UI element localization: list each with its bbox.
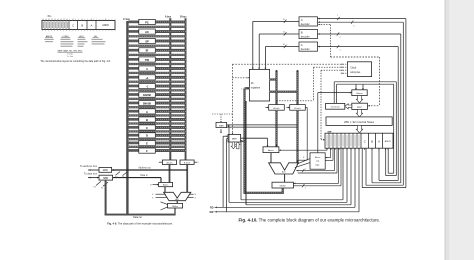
register SP row : C-bus stub, box, A/B bus bar (128, 38, 186, 43)
microinstruction narrow field vertical labels (AMUX COND ALU SH MBR MAR RD WR ENC) (43, 22, 68, 28)
svg-text:4: 4 (340, 37, 341, 39)
A decoder (299, 42, 318, 51)
wire microseq to Mmux (318, 92, 352, 153)
register C row : C-bus stub, box, A/B bus bar (128, 125, 186, 130)
table caption (40, 60, 111, 63)
svg-text:ALU: ALU (175, 198, 179, 201)
C decoder (299, 17, 318, 26)
svg-text:B: B (301, 31, 303, 35)
legend column COND (61, 36, 74, 47)
svg-text:B: B (81, 23, 83, 27)
wire A latch to AMUX (169, 165, 171, 183)
svg-text:TIR: TIR (145, 58, 149, 62)
A latch (block diagram) (265, 105, 284, 111)
svg-text:2: 2 (305, 187, 306, 189)
wire inter-register bus bar (127, 114, 186, 116)
shifter (left figure) (168, 203, 183, 208)
svg-text:B bus: B bus (180, 16, 187, 18)
wire ENC-field line to registers (245, 101, 351, 205)
register AMASK row : C-bus stub, box, A/B bus bar (128, 92, 186, 97)
wire B latch down to ALU right input (186, 165, 188, 193)
svg-text:Increment: Increment (331, 106, 340, 109)
svg-text:registers: registers (251, 86, 261, 89)
wire inter-register bus bar (127, 63, 186, 65)
wire COND lines from MIR into microseq (2) (325, 148, 333, 160)
wire MAR-field line to MAR box (229, 125, 347, 202)
svg-text:Amux: Amux (268, 149, 274, 152)
svg-text:WR: WR (210, 211, 214, 214)
svg-text:16: 16 (283, 44, 285, 46)
label Data out (133, 216, 142, 219)
A latch L1 (159, 160, 177, 165)
scanner grey strip right edge (445, 0, 474, 260)
wire dashed clock to MIR (321, 70, 341, 140)
svg-text:C: C (146, 126, 148, 130)
svg-text:The microinstruction layout fo: The microinstruction layout for controll… (40, 60, 111, 63)
AMUX (block diagram) (263, 147, 279, 153)
wire C return branch to MBR (241, 140, 245, 142)
wire inter-register bus bar (127, 45, 186, 47)
svg-text:Mmux: Mmux (357, 93, 364, 95)
svg-text:A bus: A bus (165, 15, 172, 18)
svg-text:16: 16 (283, 31, 285, 33)
svg-text:SMASK: SMASK (143, 102, 152, 105)
label To data bus + arrow (84, 172, 99, 179)
svg-text:decoder: decoder (301, 48, 310, 51)
wire MAR to address bus stub (220, 129, 222, 133)
svg-text:decoder: decoder (301, 35, 310, 38)
wire ALU to shifter (block diagram) (284, 174, 286, 182)
svg-text:A: A (146, 110, 148, 114)
svg-text:MAR: MAR (219, 124, 224, 127)
svg-text:A latch: A latch (166, 161, 172, 164)
wire inter-register bus bar (127, 138, 186, 140)
Mmux box (352, 90, 367, 96)
svg-text:AC: AC (145, 30, 149, 34)
register PC row : C-bus stub, box, A/B bus bar (128, 19, 186, 24)
wire AMUX to ALU (270, 153, 272, 163)
svg-text:A: A (378, 139, 380, 143)
wire ENC outer loop (362, 19, 406, 188)
svg-text:MBR: MBR (103, 178, 108, 180)
caption figure 4-9 (107, 221, 173, 225)
svg-text:E: E (146, 141, 148, 145)
wire inter-register bus bar (127, 26, 186, 28)
wire inter-register bus bar (127, 130, 186, 132)
wire MBR to AMUX (241, 138, 269, 147)
svg-text:1 = Yes: 1 = Yes (67, 56, 73, 58)
MBR (block diagram) (228, 134, 241, 142)
register IR row : C-bus stub, box, A/B bus bar (128, 48, 186, 53)
svg-text:L: L (198, 162, 199, 164)
wire dashed clock long line to MBR/MAR/registers (212, 64, 341, 134)
wire address out : B latch to MAR (112, 169, 188, 171)
ALU status outputs N Z (187, 194, 197, 199)
wire B latch right branch (297, 107, 308, 160)
microsequencing logic box (310, 153, 325, 169)
Rd Wr control arrows near MBR (94, 181, 108, 189)
wire inter-register bus bar (127, 146, 186, 148)
MAR (to address bus) (99, 167, 112, 172)
wire B field into B decoder (4) (318, 32, 401, 38)
svg-text:IR: IR (146, 49, 149, 53)
shifter control ticks (161, 202, 168, 210)
16 registers box (249, 69, 269, 101)
control store 256x32 (326, 117, 392, 126)
svg-text:B: B (146, 118, 148, 122)
svg-text:B latch: B latch (184, 161, 190, 164)
wire A field into A decoder (4) (318, 45, 399, 51)
svg-text:16: 16 (283, 19, 285, 21)
microinstruction format bit-width numbers (43, 19, 106, 21)
wire inter-register bus bar (127, 81, 186, 83)
svg-text:RD: RD (210, 207, 214, 210)
microinstruction format field dividers (43, 19, 115, 32)
AMUX U1 (159, 183, 173, 187)
bus registers to A latch (270, 70, 278, 105)
svg-text:subcycles: subcycles (350, 72, 361, 74)
wire shifter control from MIR (2) (293, 148, 341, 189)
wire B latch to MAR (double) (227, 125, 298, 127)
wire dashed clock line above box to MPC (331, 57, 380, 107)
register A row : C-bus stub, box, A/B bus bar (128, 109, 186, 114)
wire clock output stubs (4 dashed) (341, 63, 348, 74)
svg-text:B latch: B latch (294, 107, 300, 110)
wire inter-register bus bar (127, 89, 186, 91)
svg-text:ADDR: ADDR (385, 140, 391, 143)
wire MBR-field line to MBR box (241, 140, 343, 200)
svg-text:Fig. 4-9. The data path of the: Fig. 4-9. The data path of the example m… (107, 221, 173, 225)
MIR label (328, 131, 332, 133)
wire dashed clock from C decoder corner (318, 24, 330, 57)
wire decoder 16-line output to registers (252, 19, 299, 70)
register D row : C-bus stub, box, A/B bus bar (128, 133, 186, 138)
wire inter-register bus bar (127, 122, 186, 124)
register B row : C-bus stub, box, A/B bus bar (128, 117, 186, 122)
svg-text:decoder: decoder (301, 23, 310, 26)
bus ADDR field to Mmux (double) (386, 82, 397, 176)
register F row : C-bus stub, box, A/B bus bar (128, 148, 186, 153)
label Address out (138, 167, 151, 170)
clock subcycles box (347, 62, 371, 77)
legend column ALU (78, 35, 88, 47)
microinstruction wide field labels C B A ADDR (72, 23, 109, 27)
svg-text:SP: SP (145, 39, 149, 43)
hollow arrow Mmux to MPC (356, 96, 362, 103)
svg-text:MPC: MPC (357, 107, 362, 109)
legend column SH (92, 36, 106, 45)
label WR (210, 211, 217, 214)
wire inter-register bus bar (127, 35, 186, 37)
ALU trapezoid (block diagram) (269, 163, 299, 174)
wire A field loop (379, 47, 398, 181)
bus B latch to ALU (296, 110, 298, 163)
svg-text:A latch: A latch (273, 107, 279, 110)
ALU trapezoid (left figure) (164, 192, 191, 201)
hollow arrow control store to MIR (356, 125, 362, 133)
svg-text:MBR: MBR (232, 139, 237, 141)
register TIR row : C-bus stub, box, A/B bus bar (128, 57, 186, 62)
svg-text:Rd: Rd (94, 187, 96, 189)
wire inter-register bus bar (127, 106, 186, 108)
svg-text:4: 4 (340, 49, 341, 51)
svg-text:256 × 32 Control Store: 256 × 32 Control Store (344, 120, 375, 124)
MPC box (352, 103, 368, 109)
svg-text:1: 1 (337, 15, 338, 17)
wire dashed clock to latches (277, 67, 341, 104)
svg-text:C: C (72, 23, 74, 27)
svg-text:ADDR: ADDR (102, 24, 109, 27)
svg-text:To data bus: To data bus (84, 172, 98, 176)
svg-text:Micro-: Micro- (315, 157, 321, 159)
register +1 row : C-bus stub, box, A/B bus bar (128, 75, 186, 80)
svg-text:Clock: Clock (350, 67, 357, 70)
wire ALU N Z to microsequencing logic (295, 157, 310, 168)
wire AMUX to ALU (164, 187, 166, 193)
wire data in : MBR to AMUX (113, 178, 161, 183)
wire WR line (215, 139, 360, 212)
svg-text:D: D (146, 134, 148, 138)
svg-text:C: C (364, 139, 366, 143)
A bus label (165, 15, 172, 18)
bus Mmux top feedback (double) (334, 82, 396, 104)
svg-text:Fig. 4-10. The complete block: Fig. 4-10. The complete block diagram of… (239, 217, 381, 222)
microinstruction format table label Bits (48, 15, 53, 18)
svg-text:Rd: Rd (115, 176, 117, 178)
label RD (210, 206, 217, 209)
register E row : C-bus stub, box, A/B bus bar (128, 140, 186, 145)
increment box (326, 103, 345, 109)
wire ALU control lines from MIR (2) (296, 148, 337, 173)
wire RD line (215, 135, 356, 207)
B decoder (299, 29, 318, 38)
ALU function inputs F0 F1 (152, 194, 167, 199)
svg-text:F₀: F₀ (152, 194, 154, 196)
wire B field loop (372, 34, 401, 183)
AMUX control arrow (150, 184, 159, 187)
wire ALU to shifter (176, 201, 178, 204)
svg-text:4: 4 (353, 25, 354, 27)
wire inter-register bus bar (127, 98, 186, 100)
svg-text:Shifter: Shifter (172, 205, 178, 208)
C bus label (123, 18, 130, 21)
svg-text:seq.: seq. (316, 161, 320, 163)
svg-text:+1: +1 (145, 76, 149, 80)
svg-text:AMASK: AMASK (143, 94, 152, 97)
wire C field into C decoder (4) (318, 21, 404, 28)
hollow arrow MPC to increment (345, 104, 352, 109)
svg-text:Shifter: Shifter (280, 185, 287, 188)
register 0 row : C-bus stub, box, A/B bus bar (128, 66, 186, 71)
svg-text:A: A (301, 43, 303, 47)
shifter (block diagram) (272, 182, 293, 188)
register SMASK row : C-bus stub, box, A/B bus bar (128, 100, 186, 105)
svg-text:C: C (301, 18, 303, 22)
bus A latch to AMUX (275, 110, 277, 147)
svg-text:To address bus: To address bus (80, 164, 98, 168)
MBR (to data bus) (99, 175, 113, 180)
svg-text:logic: logic (316, 164, 320, 166)
wire C field loop (366, 22, 403, 185)
MIR register box with fields (325, 133, 393, 150)
svg-text:PC: PC (145, 20, 149, 24)
wire shifter output to data out / C bus return (105, 180, 176, 216)
register AC row : C-bus stub, box, A/B bus bar (128, 29, 186, 34)
svg-text:A: A (91, 23, 93, 27)
wire ENC line into C decoder (1) (318, 15, 406, 20)
wire decoder 16-line output to registers (264, 44, 299, 69)
label To address bus + arrow (80, 164, 99, 171)
wire C bus vertical (126, 21, 128, 215)
MAR (block diagram) (216, 122, 227, 127)
B latch (block diagram) (286, 105, 305, 111)
caption figure 4-10 (239, 217, 381, 222)
svg-text:MAR: MAR (103, 169, 108, 172)
svg-text:Data in: Data in (140, 174, 148, 177)
Rd Wr control arrows near MAR (115, 172, 127, 179)
register &#8722;1 row : C-bus stub, box, A/B bus bar (128, 83, 186, 88)
svg-text:Address out: Address out (138, 167, 151, 170)
microinstruction format register outline (42, 21, 115, 30)
wire AMUX control from MIR (279, 148, 327, 151)
wire B bus vertical (185, 18, 187, 160)
legend heading MBR MAR RD WR ENC (58, 50, 83, 58)
B bus label (180, 16, 187, 18)
label Data in (140, 174, 148, 177)
wire decoder 16-line output to registers (258, 31, 299, 69)
svg-text:ALU: ALU (282, 171, 286, 174)
svg-text:2: 2 (305, 168, 306, 170)
wire inter-register bus bar (127, 72, 186, 74)
wire inter-register bus bar (127, 54, 186, 56)
svg-text:B: B (371, 139, 373, 143)
bus registers to B latch (270, 70, 299, 105)
B latch L2 (180, 160, 199, 165)
hollow arrow MPC to control store (356, 109, 362, 117)
svg-text:Data out: Data out (133, 216, 142, 219)
hollow arrows MBR to data bus (231, 142, 240, 149)
wire A bus vertical (169, 18, 171, 160)
legend column AMUX (44, 35, 54, 42)
bus C return shifter to registers (241, 87, 284, 194)
